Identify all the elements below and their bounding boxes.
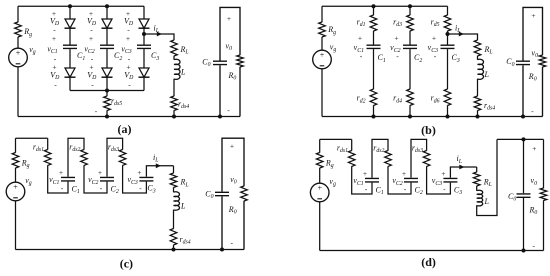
wire top rail (a) (18, 5, 144, 7)
junction node output top (d) (522, 137, 526, 141)
capacitor C0 (b) (515, 61, 531, 66)
capacitor C2 (c) (99, 177, 115, 182)
resistor rds1 (c) (44, 150, 52, 166)
current arrow iL (b) (459, 32, 464, 37)
wire output loop C0 R0 (b) (523, 7, 543, 116)
wire diode-capacitor branch 3 (a) (143, 6, 145, 90)
wire output loop C0 R0 (a) (220, 7, 240, 116)
wire bottom rail (a) (18, 116, 240, 118)
junction node branch3-rail (b) (446, 115, 450, 119)
svg-text:+: + (13, 183, 18, 192)
wire resistor-capacitor branch 1 (b) (373, 6, 375, 116)
junction node rds5-rail (a) (105, 115, 109, 119)
wire resistor-capacitor branch 3 (b) (447, 6, 449, 116)
wire resistor-capacitor branch 2 (b) (409, 6, 411, 116)
wire top rail segment 1 (c) (16, 137, 48, 139)
resistor R0 (a) (236, 55, 244, 67)
wire C3 top to iL (c) (146, 166, 173, 178)
resistor Rg (d) (316, 153, 324, 168)
wire source branch (c) (15, 138, 17, 249)
resistor Rg (c) (11, 153, 19, 168)
wire C2 top to rds3 (c) (107, 138, 146, 193)
svg-text:(c): (c) (120, 257, 133, 271)
junction node iL takeoff (a) (142, 32, 146, 36)
inductor L (c) (166, 192, 181, 209)
wire bottom rail (b) (322, 116, 543, 118)
diode D4 bottom branch 2 (a) (102, 68, 112, 77)
diode D3 top branch 2 (a) (102, 19, 112, 28)
capacitor C1 (d) (364, 178, 380, 183)
wire rds1 to C1 bottom (c) (48, 138, 68, 193)
wire inductor output branch iL (a) (144, 34, 174, 117)
inductor L (d) (469, 191, 484, 205)
source vg (a) (9, 48, 28, 67)
resistor RL (d) (473, 172, 481, 186)
junction node rds4-rail (b) (476, 115, 480, 119)
resistor R0 (c) (240, 186, 248, 201)
resistor rds5 (a) (103, 96, 111, 110)
current arrow iL (c) (156, 163, 161, 168)
capacitor C0 (c) (214, 192, 230, 197)
svg-text:+: + (363, 169, 367, 178)
svg-text:+: + (98, 168, 102, 177)
svg-text:+: + (532, 144, 536, 153)
wire top rail (b) (322, 5, 448, 7)
svg-text:+: + (227, 14, 231, 23)
junction node top rail branch2 (a) (105, 4, 109, 8)
wire C2 top to rds3 (d) (411, 139, 450, 194)
inductor L (b) (470, 60, 485, 79)
wire output top rail (d) (497, 138, 544, 140)
wire bottom rail (c) (16, 249, 245, 251)
resistor rds2 (d) (384, 151, 392, 167)
resistor rd5 branch 3 (b) (443, 15, 451, 31)
svg-text:+: + (126, 34, 130, 43)
wire bottom bus (a) (70, 90, 144, 92)
svg-text:+: + (317, 184, 322, 193)
capacitor C0 (a) (212, 61, 228, 66)
junction node bottom bus (a) (105, 89, 109, 93)
junction node top rail branch1 (b) (372, 4, 376, 8)
junction node branch2-rail (b) (408, 115, 412, 119)
diode D5 top branch 3 (a) (139, 19, 149, 28)
svg-text:+: + (59, 168, 63, 177)
resistor Rg (a) (14, 22, 22, 37)
wire source branch (d) (319, 139, 321, 250)
resistor rd3 branch 2 (b) (406, 15, 414, 31)
svg-text:+: + (402, 169, 406, 178)
resistor RL (b) (473, 40, 481, 56)
svg-text:+: + (441, 169, 445, 178)
wire R0 branch (d) (543, 139, 545, 250)
resistor RL (c) (169, 173, 177, 187)
wire diode-capacitor branch 2 (a) (106, 6, 108, 90)
wire rds5 stub (a) (106, 91, 108, 117)
current arrow iL (a) (157, 32, 162, 37)
resistor rds4 (b) (473, 96, 481, 110)
capacitor C1 (a) (62, 45, 78, 50)
capacitor C2 (a) (99, 45, 115, 50)
junction node output loop-rail (a) (218, 115, 222, 119)
wire C1 top to rds2 (d) (372, 139, 411, 194)
diode D6 bottom branch 3 (a) (139, 68, 149, 77)
junction node output loop-rail (c) (220, 248, 224, 252)
wire diode-capacitor branch 1 (a) (69, 6, 71, 90)
wire output loop C0 R0 (c) (222, 138, 244, 249)
svg-text:+: + (52, 34, 56, 43)
wire rds1 to C1 bottom (d) (352, 139, 372, 194)
capacitor C2 (b) (402, 45, 418, 50)
svg-text:(b): (b) (421, 123, 436, 137)
svg-text:+: + (432, 34, 436, 43)
svg-text:+: + (394, 34, 398, 43)
wire RL-L-rds4 branch (c) (173, 166, 175, 250)
capacitor C1 (c) (60, 177, 76, 182)
capacitor C2 (d) (403, 178, 419, 183)
capacitor C3 (b) (440, 45, 456, 50)
resistor R0 (b) (538, 55, 546, 67)
resistor rds4 (a) (170, 96, 178, 110)
diode D2 bottom branch 1 (a) (65, 68, 75, 77)
resistor rd2 branch 1 (b) (369, 89, 377, 105)
resistor Rg (b) (318, 22, 326, 37)
wire bottom rail (d) (320, 250, 544, 252)
resistor rd4 branch 2 (b) (406, 89, 414, 105)
capacitor C3 (a) (136, 45, 152, 50)
resistor rd6 branch 3 (b) (443, 89, 451, 105)
capacitor C1 (b) (366, 45, 382, 50)
resistor rds3 (c) (118, 150, 126, 166)
resistor rds4 (c) (169, 229, 177, 245)
resistor RL (a) (170, 40, 178, 56)
source vg (d) (310, 183, 329, 202)
source vg (b) (313, 50, 332, 69)
capacitor C3 (d) (442, 178, 458, 183)
wire C0 branch (d) (523, 139, 525, 250)
junction node top rail branch2 (b) (408, 4, 412, 8)
inductor L (a) (167, 60, 182, 79)
junction node output loop-rail (b) (521, 115, 525, 119)
svg-text:+: + (531, 11, 535, 20)
svg-text:(d): (d) (421, 255, 436, 269)
svg-text:L: L (180, 201, 186, 210)
svg-text:(a): (a) (118, 122, 132, 136)
current arrow iL (d) (459, 165, 464, 170)
svg-text:L: L (484, 197, 490, 206)
capacitor C3 (c) (138, 177, 154, 182)
wire C1 top to rds2 (c) (68, 138, 107, 193)
wire inductor output branch iL (b) (448, 34, 478, 117)
resistor rds3 (d) (422, 151, 430, 167)
diode D1 top branch 1 (a) (65, 19, 75, 28)
svg-text:L: L (484, 70, 490, 79)
svg-text:+: + (358, 34, 362, 43)
junction node top rail branch1 (a) (68, 4, 72, 8)
junction node C0-rail (d) (522, 249, 526, 253)
svg-text:+: + (320, 51, 325, 60)
resistor rd1 branch 1 (b) (369, 15, 377, 31)
wire source branch (b) (321, 6, 323, 116)
svg-text:+: + (89, 34, 93, 43)
svg-text:+: + (16, 49, 21, 58)
wire RL-L branch to output (d) (477, 139, 497, 215)
resistor R0 (d) (539, 188, 547, 200)
junction node branch1-rail (b) (372, 115, 376, 119)
source vg (c) (6, 182, 25, 201)
capacitor C0 (d) (516, 193, 532, 198)
resistor rds2 (c) (80, 150, 88, 166)
svg-text:L: L (180, 68, 186, 77)
junction node rds4-rail (a) (172, 115, 176, 119)
wire top rail segment 1 (d) (320, 138, 352, 140)
wire C3 top to iL (d) (450, 167, 476, 178)
resistor rds1 (d) (348, 151, 356, 167)
svg-text:+: + (230, 142, 234, 151)
svg-text:+: + (137, 168, 141, 177)
wire source branch (a) (17, 6, 19, 116)
junction node rds4-rail (c) (172, 248, 176, 252)
junction node iL takeoff (b) (446, 32, 450, 36)
